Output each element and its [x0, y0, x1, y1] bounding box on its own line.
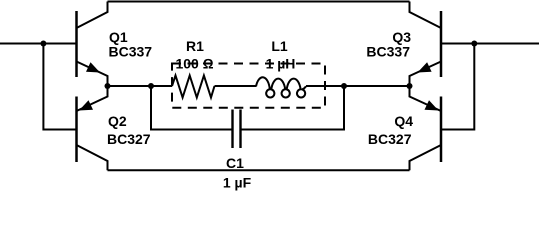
- wire left base drop: [43, 44, 76, 130]
- svg-text:BC327: BC327: [107, 131, 151, 147]
- node right output junction: [471, 41, 477, 47]
- resistor R1: [172, 76, 215, 98]
- node left emitter junction: [105, 83, 111, 89]
- svg-text:1 µF: 1 µF: [223, 175, 252, 191]
- wire right base drop: [441, 44, 474, 130]
- svg-text:R1: R1: [186, 38, 204, 54]
- wire C1 branch right: [241, 86, 345, 130]
- svg-text:BC327: BC327: [368, 131, 412, 147]
- node right tee: [341, 83, 347, 89]
- wire left input: [0, 43, 77, 45]
- transistor Q4: [410, 86, 442, 170]
- svg-text:C1: C1: [226, 155, 244, 171]
- inductor L1: [256, 77, 306, 97]
- svg-text:BC337: BC337: [366, 44, 410, 60]
- dashed snubber box: [172, 64, 325, 108]
- transistor Q1: [77, 2, 108, 87]
- transistor Q3: [410, 2, 442, 87]
- wire main line right: [306, 85, 410, 87]
- wire C1 branch left: [151, 86, 233, 130]
- node left input junction: [40, 41, 46, 47]
- wire main line left: [108, 85, 173, 87]
- node right emitter junction: [407, 83, 413, 89]
- node left tee: [148, 83, 154, 89]
- transistor Q2: [77, 86, 108, 170]
- svg-text:100 Ω: 100 Ω: [175, 56, 213, 72]
- wire bottom rail: [108, 169, 410, 171]
- svg-text:L1: L1: [271, 38, 288, 54]
- svg-text:Q4: Q4: [394, 113, 413, 129]
- svg-text:1 µH: 1 µH: [266, 56, 296, 72]
- capacitor C1: [233, 110, 241, 149]
- wire top rail: [108, 1, 410, 3]
- svg-text:Q2: Q2: [108, 113, 127, 129]
- svg-text:BC337: BC337: [109, 44, 153, 60]
- wire right output: [441, 43, 539, 45]
- wire between R1 and L1: [215, 85, 257, 87]
